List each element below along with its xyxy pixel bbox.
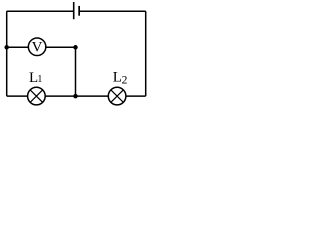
lamp L2 circle bbox=[108, 87, 126, 105]
svg-text:V: V bbox=[32, 39, 43, 55]
svg-text:L2: L2 bbox=[113, 69, 128, 86]
wire: right side down bbox=[145, 11, 147, 96]
svg-text:L1: L1 bbox=[29, 70, 42, 86]
wire: voltmeter branch right segment bbox=[46, 46, 76, 48]
lamp L1 circle bbox=[28, 87, 46, 105]
wire: top-left from corner to battery bbox=[7, 10, 74, 12]
wire: bottom-left lamp L1 to corner bbox=[7, 95, 28, 97]
node: junction bottom of middle wire bbox=[73, 94, 78, 99]
wire: voltmeter branch left segment bbox=[7, 46, 29, 48]
wire: middle vertical bbox=[75, 47, 77, 96]
node: junction top of middle wire bbox=[73, 45, 78, 50]
wire: bottom between lamps bbox=[45, 95, 108, 97]
wire: bottom-right corner to lamp L2 bbox=[126, 95, 146, 97]
lamp L2 cross bbox=[111, 90, 123, 102]
lamp L1 cross bbox=[30, 90, 42, 102]
wire: left side bbox=[6, 11, 8, 96]
battery cell: long plate (positive) bbox=[73, 2, 75, 19]
voltmeter circle bbox=[28, 38, 46, 56]
node: junction on left wire at voltmeter branch bbox=[4, 45, 9, 50]
battery cell: short plate (negative) bbox=[78, 6, 80, 16]
wire: top-right from battery to corner bbox=[79, 10, 146, 12]
